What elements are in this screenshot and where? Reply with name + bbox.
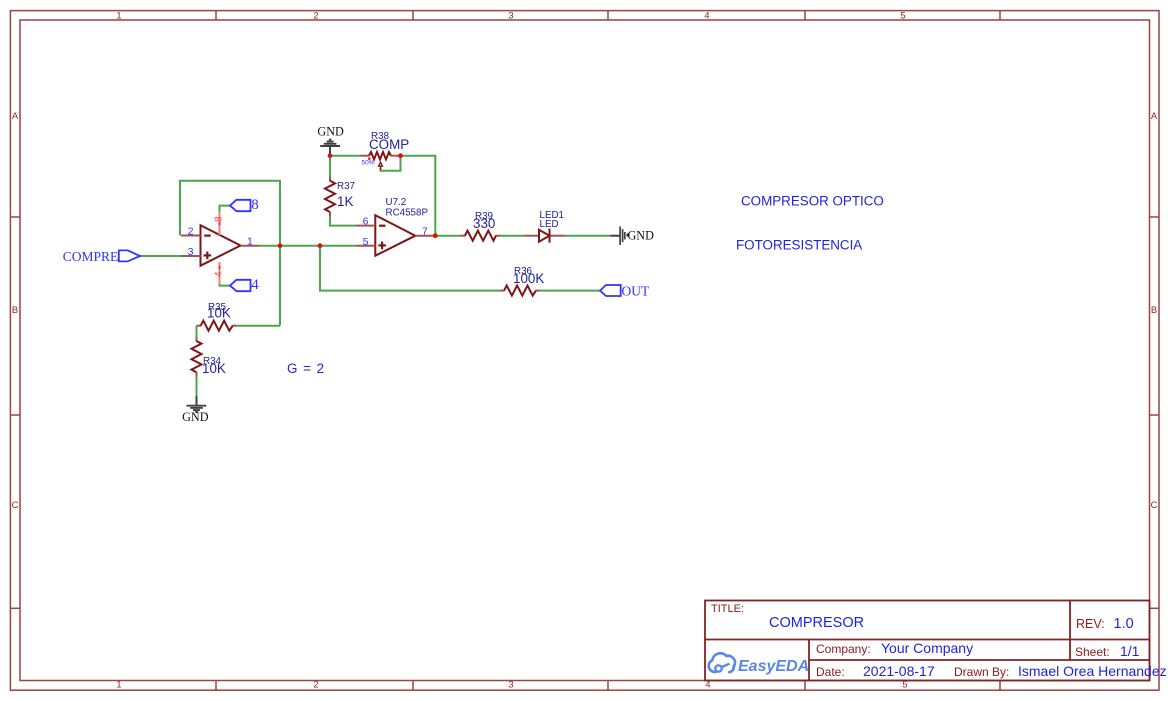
op-amp U7.1 body [201,225,241,266]
svg-text:A: A [12,110,19,121]
wire R37 to pin6 [330,217,356,226]
wire LED to GND flag [565,235,611,237]
op-amp U7.2 body [375,215,415,256]
svg-text:OUT: OUT [622,283,650,298]
junction at R38 right terminal [398,153,403,158]
op-amp U7.1 pin connection marks [219,222,221,269]
op-amp U7.2 pin numbers [363,216,428,249]
GND net flag (right) [611,227,625,246]
svg-text:8: 8 [214,216,225,222]
potentiometer R38 [369,152,391,159]
op-amp U7.1 pin numbers 2,3,1 [188,226,253,259]
potentiometer R38 leads [360,155,401,157]
GND net flag arrow mark [627,233,630,237]
svg-text:COMPRE: COMPRE [63,249,119,264]
wire pot wiper loop [381,156,401,171]
wire R34 to GND [196,377,198,396]
net flag OUT [600,283,650,298]
op-amp U7.2 pins 6,5,7 [356,226,435,246]
svg-text:2: 2 [313,10,318,21]
op-amp U7.1 pins 2,3,1 [181,236,259,257]
op-amp U7.1 power pins 8/4 [219,212,221,284]
svg-text:8: 8 [251,197,258,213]
svg-text:50%: 50% [362,160,375,167]
svg-text:Drawn By:: Drawn By: [954,665,1009,679]
wire pot right to pin7 junction [401,156,436,236]
svg-text:G = 2: G = 2 [287,361,325,376]
svg-text:A: A [1151,110,1158,121]
op-amp U7.2 +/- marks [378,226,386,250]
net flag COMPRE [63,249,140,264]
svg-text:RC4558P: RC4558P [386,208,429,219]
svg-text:3: 3 [508,10,513,21]
resistor R35 leads [197,325,237,327]
svg-text:100K: 100K [513,271,544,286]
svg-text:REV:: REV: [1076,617,1105,631]
wire junction2 down and right to R36 [320,246,500,291]
svg-text:R37: R37 [337,181,355,192]
svg-text:LED: LED [540,219,559,230]
wire GND junction to pot [330,155,360,157]
svg-text:6: 6 [363,216,369,228]
svg-text:COMP: COMP [369,137,409,152]
resistor R37 leads [329,177,331,217]
wire COMPRE to pin3 [140,255,181,257]
svg-text:10K: 10K [202,361,226,376]
net flag 4 [230,277,259,293]
svg-text:3: 3 [188,246,194,258]
potentiometer R38 wiper arrow [379,162,383,170]
title block texts [711,603,1167,679]
LED1 diode [539,229,550,243]
resistor R39 leads [460,235,500,237]
svg-text:Ismael Orea Hernandez: Ismael Orea Hernandez [1018,663,1167,679]
svg-text:C: C [1151,499,1158,510]
svg-text:Sheet:: Sheet: [1075,645,1110,659]
wire output bus [259,245,356,247]
junction at U7.2 pin 7 node [433,233,438,238]
svg-text:COMPRESOR: COMPRESOR [769,615,864,631]
svg-text:2021-08-17: 2021-08-17 [863,663,935,679]
svg-text:GND: GND [182,410,209,424]
wire R35 right [237,325,280,327]
op-amp U7.1 pin numbers 8,4 [214,216,225,277]
svg-text:4: 4 [251,277,259,293]
resistor R37 [325,181,335,212]
GND symbol (top, pot) [320,140,340,156]
net flag 8 [230,197,259,213]
svg-text:3: 3 [508,679,513,690]
GND symbol (bottom, R34) [187,396,207,412]
resistor R39 [465,231,496,241]
junction at U7.1 output node [278,243,283,248]
svg-text:1: 1 [247,236,253,248]
svg-text:5: 5 [363,236,369,248]
svg-text:B: B [1151,304,1157,315]
wire junction1 down to R35 [279,246,281,326]
svg-text:2: 2 [188,226,194,238]
EasyEDA logo [709,653,809,675]
svg-text:330: 330 [473,216,495,231]
wire GND junction down to R37 [329,156,331,177]
wire feedback loop [180,181,280,246]
potentiometer R38 pin dot [368,157,371,160]
svg-text:TITLE:: TITLE: [711,603,744,615]
resistor R36 leads [500,290,540,292]
svg-text:GND: GND [628,229,655,243]
svg-text:1K: 1K [337,194,353,209]
svg-text:1: 1 [116,10,121,21]
svg-text:GND: GND [317,125,344,139]
wire R39 to LED [500,235,524,237]
junction at GND / R37 / R38 node [328,153,333,158]
wire pin8 to flag8 [220,206,231,212]
wire pin7 to R39 [435,235,460,237]
svg-text:1: 1 [116,679,121,690]
svg-text:EasyEDA: EasyEDA [738,658,809,675]
svg-text:5: 5 [900,10,905,21]
svg-text:Date:: Date: [816,665,845,679]
svg-text:C: C [12,499,19,510]
op-amp U7.1 +/- marks [204,236,212,260]
svg-text:Your Company: Your Company [881,640,973,656]
svg-text:B: B [12,304,18,315]
svg-text:2: 2 [313,679,318,690]
LED1 leads [524,235,565,237]
svg-text:U7.2: U7.2 [386,197,407,208]
svg-text:1.0: 1.0 [1114,616,1134,632]
resistor R34 leads [196,337,198,377]
svg-text:1/1: 1/1 [1120,643,1140,659]
wire R35 left down R34 [196,326,198,337]
svg-text:10K: 10K [207,306,231,321]
svg-text:4: 4 [704,10,709,21]
svg-text:FOTORESISTENCIA: FOTORESISTENCIA [736,238,862,253]
svg-text:7: 7 [422,226,428,238]
svg-text:Company:: Company: [816,642,871,656]
svg-text:4: 4 [214,271,225,277]
resistor R34 [192,341,202,372]
wire R36 to OUT flag [540,290,600,292]
wire pin4 to flag4 [220,284,231,286]
resistor R35 [201,321,233,331]
resistor R36 [504,286,536,296]
title block lines [705,601,1150,681]
svg-text:COMPRESOR OPTICO: COMPRESOR OPTICO [741,193,884,208]
junction at U7.2 pin 5 node [318,243,323,248]
